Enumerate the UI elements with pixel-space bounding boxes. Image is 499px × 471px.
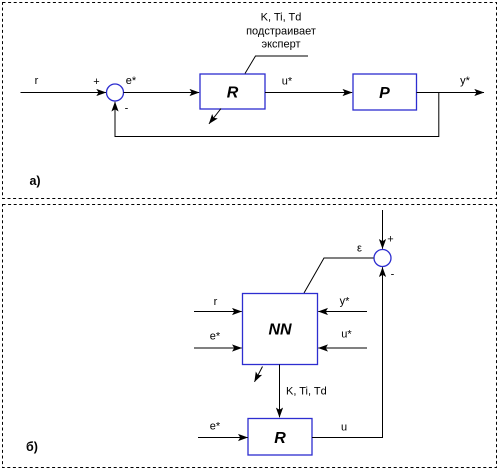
svg-text:u: u [341, 422, 347, 434]
node label u* [282, 76, 293, 88]
node label r [35, 75, 39, 87]
svg-text:подстраивает: подстраивает [246, 25, 316, 37]
node label e* (NN input) [210, 331, 221, 343]
wire: r input to NN [194, 311, 242, 313]
svg-text:NN: NN [268, 322, 292, 339]
wire: summing junction to block R [124, 92, 200, 94]
svg-text:u*: u* [341, 329, 352, 341]
block P (plant) [353, 74, 417, 110]
wire: NN output K,Ti,Td to block R [279, 365, 281, 418]
svg-text:K, Ti, Td: K, Ti, Td [286, 386, 327, 398]
svg-text:-: - [125, 103, 129, 115]
node label y* (NN input) [340, 296, 351, 308]
wire: reference input from top into summing junction 2 [382, 210, 384, 249]
svg-text:R: R [274, 430, 286, 447]
feedback wire panel a [115, 93, 439, 137]
svg-text:R: R [227, 85, 239, 102]
wire: plant output y* [417, 92, 485, 94]
svg-text:-: - [391, 269, 395, 281]
node label e* (R input) [210, 421, 221, 433]
adjustment arrow through NN output [255, 367, 263, 382]
panel a dashed border [3, 3, 497, 199]
block R (controller, panel a) [200, 74, 265, 109]
svg-text:y*: y* [460, 75, 471, 87]
expert annotation text [246, 12, 316, 51]
svg-text:б): б) [26, 440, 38, 454]
wire: y* input to NN [318, 311, 367, 313]
wire: e* input to NN [194, 347, 242, 349]
svg-text:e*: e* [210, 421, 221, 433]
svg-text:e*: e* [210, 331, 221, 343]
wire: error epsilon to NN [304, 258, 374, 293]
node label u [341, 422, 347, 434]
panel label b) [26, 440, 38, 454]
node label r (NN input) [214, 296, 218, 308]
wire: u from R up to summing junction 2 [312, 267, 383, 437]
panel label a) [29, 174, 40, 188]
wire: r input to summing junction [21, 92, 107, 94]
panel b dashed border [3, 205, 497, 468]
minus sign at summing junction 2 [391, 269, 395, 281]
svg-text:u*: u* [282, 76, 293, 88]
svg-text:r: r [214, 296, 218, 308]
callout line from expert text to block R [245, 56, 308, 74]
summing junction 1 [107, 84, 124, 101]
svg-text:эксперт: эксперт [261, 39, 300, 51]
svg-text:r: r [35, 75, 39, 87]
svg-text:ε: ε [357, 243, 362, 255]
node label u* (NN input) [341, 329, 352, 341]
node label epsilon [357, 243, 362, 255]
minus sign at summing junction 1 [125, 103, 129, 115]
plus sign at summing junction 1 [93, 76, 99, 88]
block R (controller, panel b) [248, 419, 312, 456]
node label y* [460, 75, 471, 87]
summing junction 2 [374, 250, 391, 267]
svg-text:+: + [387, 234, 393, 246]
node label e* [126, 75, 137, 87]
label K, Ti, Td [286, 386, 327, 398]
svg-text:y*: y* [340, 296, 351, 308]
svg-text:+: + [93, 76, 99, 88]
wire: block R to block P [265, 92, 352, 94]
svg-text:P: P [379, 85, 390, 102]
wire: e* input to block R (panel b) [198, 437, 248, 439]
plus sign at summing junction 2 [387, 234, 393, 246]
svg-text:e*: e* [126, 75, 137, 87]
wire: u* input to NN [318, 347, 367, 349]
adjustment arrow through block R [209, 109, 221, 124]
svg-text:K, Ti, Td: K, Ti, Td [261, 12, 302, 24]
block NN (neural network) [243, 294, 318, 365]
svg-text:а): а) [29, 174, 40, 188]
